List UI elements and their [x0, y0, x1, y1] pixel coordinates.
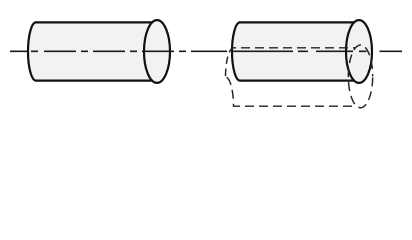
top silhouette line [36, 21, 152, 23]
bottom silhouette line [240, 79, 354, 81]
top silhouette line [240, 21, 354, 23]
right cylinder body (silhouette fill) [232, 22, 359, 80]
phantom bottom silhouette line and lower half of left end arc [226, 77, 357, 106]
left cylinder body (silhouette fill) [28, 22, 157, 80]
phantom left end arc, upper half [226, 48, 234, 77]
centerline (axis, dash-dot chain line) [10, 50, 402, 52]
right end ellipse [144, 20, 170, 83]
phantom right end ellipse [348, 45, 372, 108]
right end ellipse [346, 20, 372, 83]
phantom top silhouette line [234, 47, 357, 49]
right cylinder outline [232, 20, 372, 83]
right cylinder end cap fill [346, 20, 372, 83]
left end arc [28, 22, 36, 80]
phantom cylinder (alternate extended position, dashed) [226, 45, 373, 108]
left cylinder outline [28, 20, 170, 83]
left cylinder end cap fill [144, 20, 170, 83]
bottom silhouette line [36, 79, 152, 81]
left end arc [232, 22, 240, 80]
